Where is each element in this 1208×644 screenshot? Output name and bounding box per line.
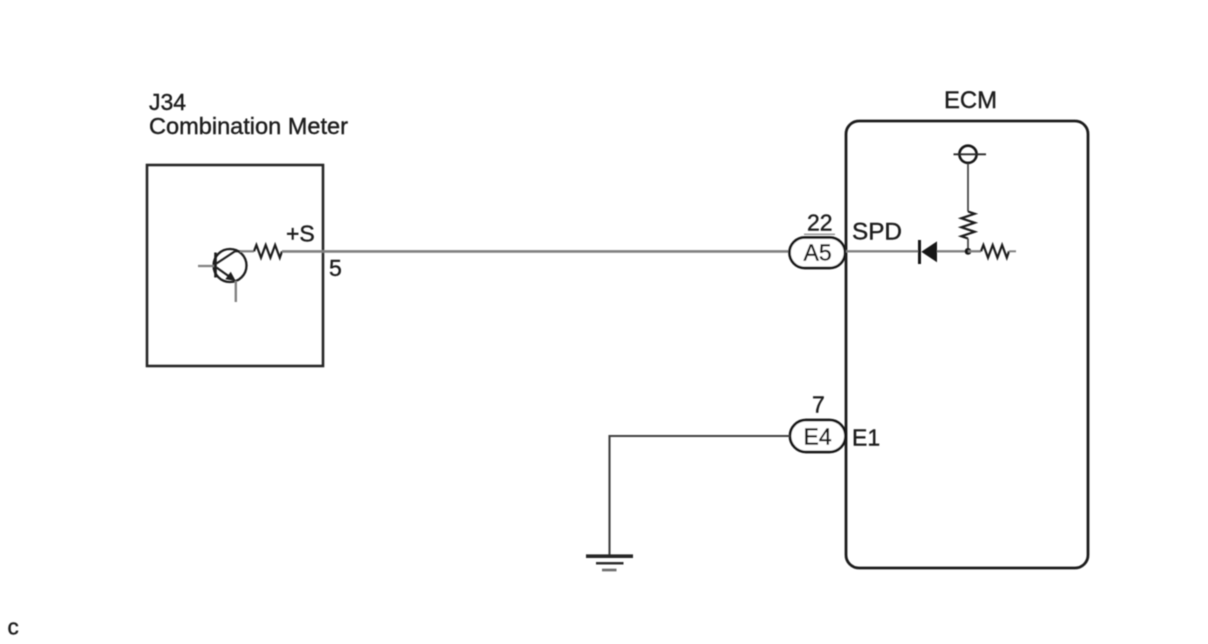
svg-text:J34: J34: [149, 89, 186, 115]
resistor R1: [254, 245, 282, 258]
wire diode to junction: [937, 250, 968, 252]
wire power to resistor R2: [967, 163, 969, 211]
svg-text:E4: E4: [804, 424, 832, 450]
component box ECM: [846, 121, 1088, 568]
wire main signal R1 to connector A5: [282, 250, 789, 253]
connector A5: [790, 238, 846, 269]
transistor Q1: [214, 249, 247, 282]
junction node: [965, 248, 972, 255]
connector E4: [790, 420, 846, 452]
diode D1: [920, 240, 938, 264]
component box J34 Combination Meter: [147, 165, 323, 366]
node E1: [852, 425, 880, 451]
svg-text:E1: E1: [852, 425, 880, 451]
wire A5 to diode: [846, 250, 918, 252]
svg-text:c: c: [8, 615, 19, 640]
wire base stub of Q1: [198, 265, 214, 267]
svg-text:ECM: ECM: [944, 87, 997, 114]
wire emitter lead of Q1: [235, 281, 237, 302]
svg-text:22: 22: [807, 210, 833, 236]
pin 7: [812, 392, 825, 418]
label Combination Meter: [149, 113, 348, 139]
pin 22: [807, 210, 833, 236]
wire E4 to ground corner: [610, 436, 791, 555]
power symbol B+: [954, 146, 987, 163]
svg-text:5: 5: [329, 255, 342, 281]
label c: [8, 615, 19, 640]
svg-text:Combination Meter: Combination Meter: [149, 113, 348, 139]
pin 5: [329, 255, 342, 281]
svg-text:A5: A5: [804, 240, 832, 266]
node SPD: [852, 219, 902, 246]
ground: [586, 556, 633, 570]
resistor R3: [981, 245, 1009, 258]
wire collector to resistor: [240, 250, 254, 252]
svg-text:7: 7: [812, 392, 825, 418]
label ECM: [944, 87, 997, 114]
wire R2 to junction: [967, 239, 969, 252]
node +S: [286, 221, 315, 247]
resistor R2 pull-up: [961, 212, 974, 239]
label J34: [149, 89, 186, 115]
svg-text:SPD: SPD: [852, 219, 902, 246]
pin 22 underline: [804, 233, 835, 235]
wire R3 stub: [1009, 250, 1016, 252]
wire junction to resistor R3: [968, 250, 981, 252]
svg-text:+S: +S: [286, 221, 315, 247]
